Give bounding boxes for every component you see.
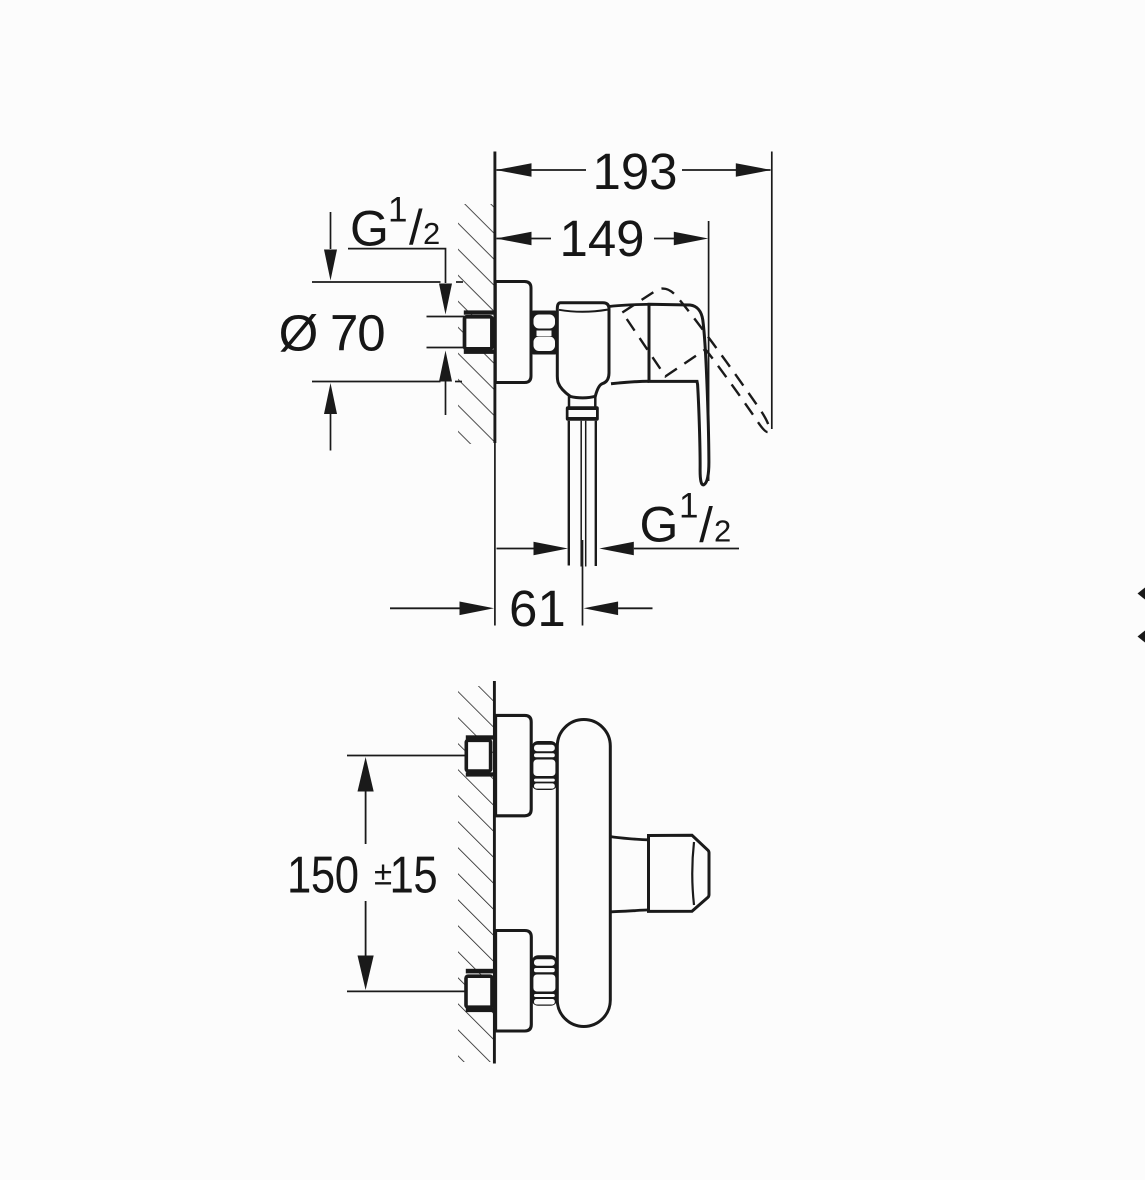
G1/2 pipe dim: lower shaft: [445, 382, 447, 416]
body cap seam line: [559, 310, 608, 312]
wall hatch (top view): [458, 204, 494, 444]
dimension 149: right arrowhead: [674, 232, 709, 246]
dimension 61: right arrow: [584, 602, 619, 616]
svg-text:2: 2: [714, 514, 731, 549]
svg-text:1: 1: [388, 191, 407, 230]
lower hose nut (front view): [531, 955, 557, 1006]
G1/2 hose dim line: left arrow: [497, 548, 536, 550]
G1/2 hose dim line: right arrow with tail: [599, 542, 634, 556]
lower union square: [466, 976, 492, 1007]
Ø70 top reference line: [312, 281, 441, 283]
lever handle alternate position (dashed): [622, 279, 773, 462]
lever handle (side view): [649, 304, 709, 485]
shower hose: [568, 421, 570, 566]
upper hose nut (front view): [531, 741, 557, 790]
pipe bottom line: [427, 347, 465, 349]
outlet neck: [568, 396, 571, 407]
svg-text:61: 61: [509, 580, 566, 637]
pipe top line: [427, 316, 465, 318]
svg-text:193: 193: [592, 143, 677, 200]
lower union bars: [466, 969, 495, 974]
lower escutcheon (front view): [496, 931, 532, 1032]
wall plane extension line (down to 61 dim): [494, 443, 496, 626]
dimension 149: line: [497, 238, 552, 240]
svg-text:/: /: [409, 201, 423, 255]
G1/2 pipe dim: down arrowhead: [439, 284, 452, 315]
right edge arrow fragment upper: [1138, 588, 1145, 600]
upper escutcheon (front view): [496, 715, 532, 815]
union pipe stub bars at wall (top view): [464, 310, 495, 314]
wall hatch (front view): [458, 686, 494, 1062]
right edge arrow fragment lower: [1138, 631, 1145, 643]
dimension 150±15: up arrow: [358, 757, 374, 792]
valve body capsule (front view): [557, 720, 610, 1027]
upper union square: [466, 740, 490, 771]
dimension 150±15: bottom extension line: [347, 990, 466, 992]
dimension 193: extension line (right): [771, 152, 773, 430]
dimension 61: extension line (hose axis): [582, 540, 584, 626]
dimension 193: right arrowhead: [736, 163, 772, 177]
svg-text:/: /: [699, 499, 713, 553]
Ø70 bottom reference line: [312, 381, 441, 383]
svg-text:15: 15: [390, 847, 438, 904]
lever handle (front view): [649, 835, 710, 911]
hex nut (side view): [531, 311, 559, 355]
wall line (top view): [493, 152, 496, 444]
svg-text:2: 2: [423, 216, 440, 251]
leader line G 1/2 top: [348, 249, 446, 283]
dimension 193: line: [497, 169, 587, 171]
Ø70 top arrow: [330, 212, 332, 249]
svg-text:G: G: [640, 496, 679, 552]
svg-text:150: 150: [287, 847, 359, 904]
dimension 193: left arrowhead: [496, 163, 532, 177]
dimension 149: left arrowhead: [496, 232, 532, 246]
cartridge neck (front view): [610, 837, 649, 840]
svg-text:149: 149: [559, 210, 644, 267]
dimension 61: left arrow: [390, 607, 460, 609]
escutcheon (side view): [495, 282, 531, 383]
handle end cap arc (front view): [692, 842, 694, 905]
wall line (front view): [493, 681, 496, 1064]
outlet collar: [566, 406, 599, 420]
cartridge neck (side view): [609, 304, 649, 306]
Ø70 bottom arrow: [324, 383, 337, 414]
valve body (side view): [557, 303, 609, 398]
svg-text:Ø 70: Ø 70: [279, 305, 385, 362]
dimension 149: extension line (right): [708, 221, 710, 481]
dimension 150±15: top extension line: [347, 755, 466, 757]
G1/2 pipe dim: up arrowhead: [439, 351, 452, 382]
union pipe stub square (top view): [465, 317, 492, 349]
svg-text:1: 1: [679, 487, 698, 526]
dimension 150±15: down arrow: [365, 901, 367, 957]
upper union bars: [466, 735, 495, 739]
